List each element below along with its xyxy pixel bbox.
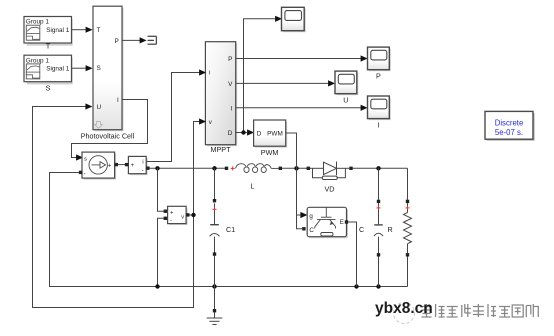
svg-text:PWM: PWM (267, 131, 283, 138)
Discrete powergui block (485, 111, 535, 140)
wire v out (190, 214, 194, 216)
scope U (335, 71, 358, 104)
svg-text:i: i (142, 159, 143, 165)
svg-text:C1: C1 (226, 225, 235, 234)
svg-text:-: - (170, 218, 172, 224)
junction top rail (155, 166, 159, 170)
svg-text:D: D (228, 130, 233, 137)
svg-text:+: + (108, 163, 112, 169)
junction D (241, 130, 245, 134)
controlled current source (82, 152, 116, 180)
wire v to U feedback (33, 107, 194, 308)
wire MPPT P to scope P (236, 58, 361, 60)
PWM block (254, 120, 288, 157)
svg-text:D: D (257, 131, 262, 138)
svg-text:+: + (170, 211, 174, 217)
svg-text:Group 1: Group 1 (26, 19, 50, 26)
svg-text:Discrete: Discrete (495, 119, 524, 128)
capacitor C (374, 168, 383, 286)
signal builder block S (24, 55, 73, 92)
scope P (368, 47, 391, 80)
current measurement block i (128, 156, 147, 175)
bottom rail (158, 255, 408, 287)
source output port (115, 163, 118, 166)
voltage measurement block v (168, 206, 188, 225)
watermark chinese text (422, 304, 540, 318)
wire source + to i block (118, 164, 127, 166)
diode VD (307, 167, 310, 170)
svg-text:PWM: PWM (261, 148, 279, 157)
svg-text:Group 1: Group 1 (26, 57, 50, 64)
svg-text:L: L (251, 182, 255, 191)
wire S to PV (72, 67, 87, 69)
ground (207, 287, 223, 325)
svg-text:i: i (209, 70, 210, 77)
signal builder block T (24, 17, 73, 51)
svg-text:Photovoltaic Cell: Photovoltaic Cell (81, 132, 135, 141)
svg-text:+: + (131, 163, 135, 169)
wire v+ tap (158, 168, 164, 211)
svg-text:S: S (97, 65, 101, 72)
svg-text:P: P (228, 56, 232, 63)
svg-text:-: - (142, 168, 144, 174)
wire v signal to MPPT v (194, 122, 200, 216)
svg-text:T: T (46, 42, 51, 51)
svg-text:T: T (97, 27, 101, 34)
svg-text:P: P (376, 72, 381, 81)
scope I (368, 96, 391, 129)
svg-text:s: s (84, 156, 87, 162)
top rail (150, 168, 408, 201)
svg-text:v: v (181, 214, 184, 220)
svg-text:I: I (377, 120, 379, 129)
Photovoltaic Cell block U1 (81, 6, 135, 140)
wire source - to bottom rail (50, 173, 158, 287)
wire T to PV (72, 29, 87, 31)
wire E to bottom rail (348, 222, 356, 287)
wire i signal to MPPT i (146, 73, 199, 162)
watermark logo circle (394, 303, 415, 324)
svg-text:-: - (84, 171, 86, 177)
resistor R (404, 203, 412, 253)
svg-text:5e-07 s.: 5e-07 s. (495, 128, 523, 137)
svg-text:Signal 1: Signal 1 (46, 27, 70, 34)
scope Scope0 (282, 7, 306, 32)
wire MPPT D to PWM and scope0 (236, 19, 276, 133)
wire PV P to terminator (122, 39, 140, 41)
wire PWM out to IGBT (286, 133, 303, 229)
svg-text:U: U (97, 104, 102, 111)
svg-text:ybx8.cn: ybx8.cn (375, 300, 433, 317)
svg-text:I: I (231, 105, 233, 112)
wire MPPT V to scope U (236, 82, 329, 84)
svg-text:S: S (46, 84, 51, 93)
terminator (148, 36, 157, 44)
svg-text:MPPT: MPPT (211, 145, 232, 154)
capacitor C1 (210, 168, 220, 286)
svg-text:g: g (309, 213, 313, 220)
svg-text:E: E (340, 219, 344, 226)
svg-text:C: C (359, 225, 364, 234)
svg-text:I: I (117, 97, 119, 104)
svg-text:R: R (388, 225, 393, 234)
svg-text:V: V (228, 81, 233, 88)
svg-text:VD: VD (325, 185, 335, 194)
IGBT block (307, 207, 348, 238)
inductor L (225, 167, 228, 170)
wire PV I to source s (72, 100, 148, 158)
svg-text:C: C (309, 227, 314, 234)
svg-text:U: U (343, 96, 348, 105)
wire v- down (158, 218, 164, 286)
svg-text:P: P (115, 38, 119, 45)
svg-text:Signal 1: Signal 1 (46, 66, 70, 73)
MPPT block (205, 42, 237, 154)
wire MPPT I to scope I (236, 107, 361, 109)
